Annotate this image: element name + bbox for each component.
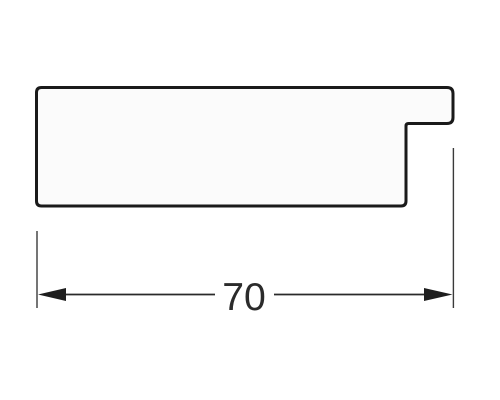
- right arrowhead: [424, 288, 453, 301]
- dimension line left segment: [64, 294, 215, 296]
- svg-text:70: 70: [222, 276, 266, 319]
- right extension line: [452, 148, 454, 308]
- dimension line right segment: [274, 294, 426, 296]
- left extension line: [36, 231, 38, 308]
- left arrowhead: [38, 288, 66, 301]
- profile outline of moulding cross-section: [37, 88, 454, 207]
